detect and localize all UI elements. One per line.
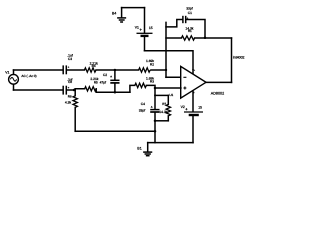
op-amp U1 xyxy=(169,66,224,98)
svg-text:R7: R7 xyxy=(162,102,166,106)
wire V+ supply xyxy=(145,51,194,74)
svg-text:V1: V1 xyxy=(135,25,139,29)
battery V1 (top supply) xyxy=(135,8,153,51)
node C2 bottom xyxy=(114,91,117,94)
svg-text:15: 15 xyxy=(198,106,202,110)
wire V- supply xyxy=(192,91,194,112)
svg-text:R1: R1 xyxy=(188,29,192,33)
resistor R4 xyxy=(84,61,115,72)
svg-text:47pf: 47pf xyxy=(100,81,107,85)
wire non-inverting input xyxy=(155,87,181,89)
source V1 (AC) xyxy=(5,70,36,90)
capacitor C3 xyxy=(63,53,84,74)
feedback node vertical xyxy=(165,22,167,77)
svg-text:B4: B4 xyxy=(112,12,116,16)
node C1/R1 join xyxy=(204,37,207,40)
wire top branch xyxy=(14,69,63,71)
wire output right vertical xyxy=(231,38,233,82)
wire RC bottom bar xyxy=(155,120,168,122)
svg-text:V2: V2 xyxy=(181,105,185,109)
capacitor C1 xyxy=(166,7,205,38)
svg-text:C4: C4 xyxy=(141,102,145,106)
svg-text:R5: R5 xyxy=(94,80,98,84)
svg-text:R3: R3 xyxy=(150,80,154,84)
svg-text:C2: C2 xyxy=(103,73,107,77)
node top-branch/feedback xyxy=(165,69,167,71)
svg-text:V1: V1 xyxy=(5,71,9,75)
resistor R1 xyxy=(166,27,232,41)
node C6 junction xyxy=(73,89,76,92)
svg-text:15: 15 xyxy=(149,26,153,30)
wire output xyxy=(206,81,232,83)
wire ground rail xyxy=(75,130,155,132)
svg-text:C3: C3 xyxy=(68,57,72,61)
svg-text:4.3k: 4.3k xyxy=(65,101,72,105)
resistor R6 (vertical) xyxy=(65,90,78,131)
wire inverting input xyxy=(166,76,181,78)
svg-text:R2: R2 xyxy=(150,62,154,66)
capacitor C2 xyxy=(100,70,120,92)
svg-text:33pf: 33pf xyxy=(186,7,193,11)
wire bottom branch xyxy=(14,89,63,91)
node rail join xyxy=(154,130,157,133)
svg-text:U1: U1 xyxy=(169,93,173,97)
capacitor C6 xyxy=(63,78,74,95)
svg-text:R6: R6 xyxy=(68,94,72,98)
svg-text:C1: C1 xyxy=(188,11,192,15)
svg-text:AC ( .Ac 0): AC ( .Ac 0) xyxy=(21,74,36,78)
capacitor C4 xyxy=(139,95,160,120)
wire RC top bar xyxy=(155,94,168,96)
node C2 top xyxy=(114,69,117,72)
ground B1 xyxy=(137,143,151,156)
resistor R2 xyxy=(139,59,166,72)
battery V2 (lower supply) xyxy=(181,105,203,143)
resistor R7 xyxy=(159,95,170,120)
wire RC to bottom xyxy=(154,121,156,143)
wire bottom return xyxy=(148,142,193,144)
svg-text:14.3k: 14.3k xyxy=(159,110,167,114)
wire down to RC pair xyxy=(154,88,156,95)
svg-text:AD8002: AD8002 xyxy=(211,92,224,96)
svg-text:33pf: 33pf xyxy=(139,109,146,113)
resistor R5 xyxy=(74,77,130,92)
node + input junction xyxy=(154,87,157,90)
node RC bottom xyxy=(154,120,157,123)
wire top rail xyxy=(122,7,145,9)
svg-text:R4: R4 xyxy=(92,64,96,68)
svg-text:C6: C6 xyxy=(68,80,72,84)
svg-text:B1: B1 xyxy=(137,146,141,150)
resistor R3 xyxy=(130,76,155,92)
svg-text:int4002: int4002 xyxy=(233,55,245,59)
ground B4 xyxy=(112,8,125,22)
wire to R2 xyxy=(115,69,139,71)
